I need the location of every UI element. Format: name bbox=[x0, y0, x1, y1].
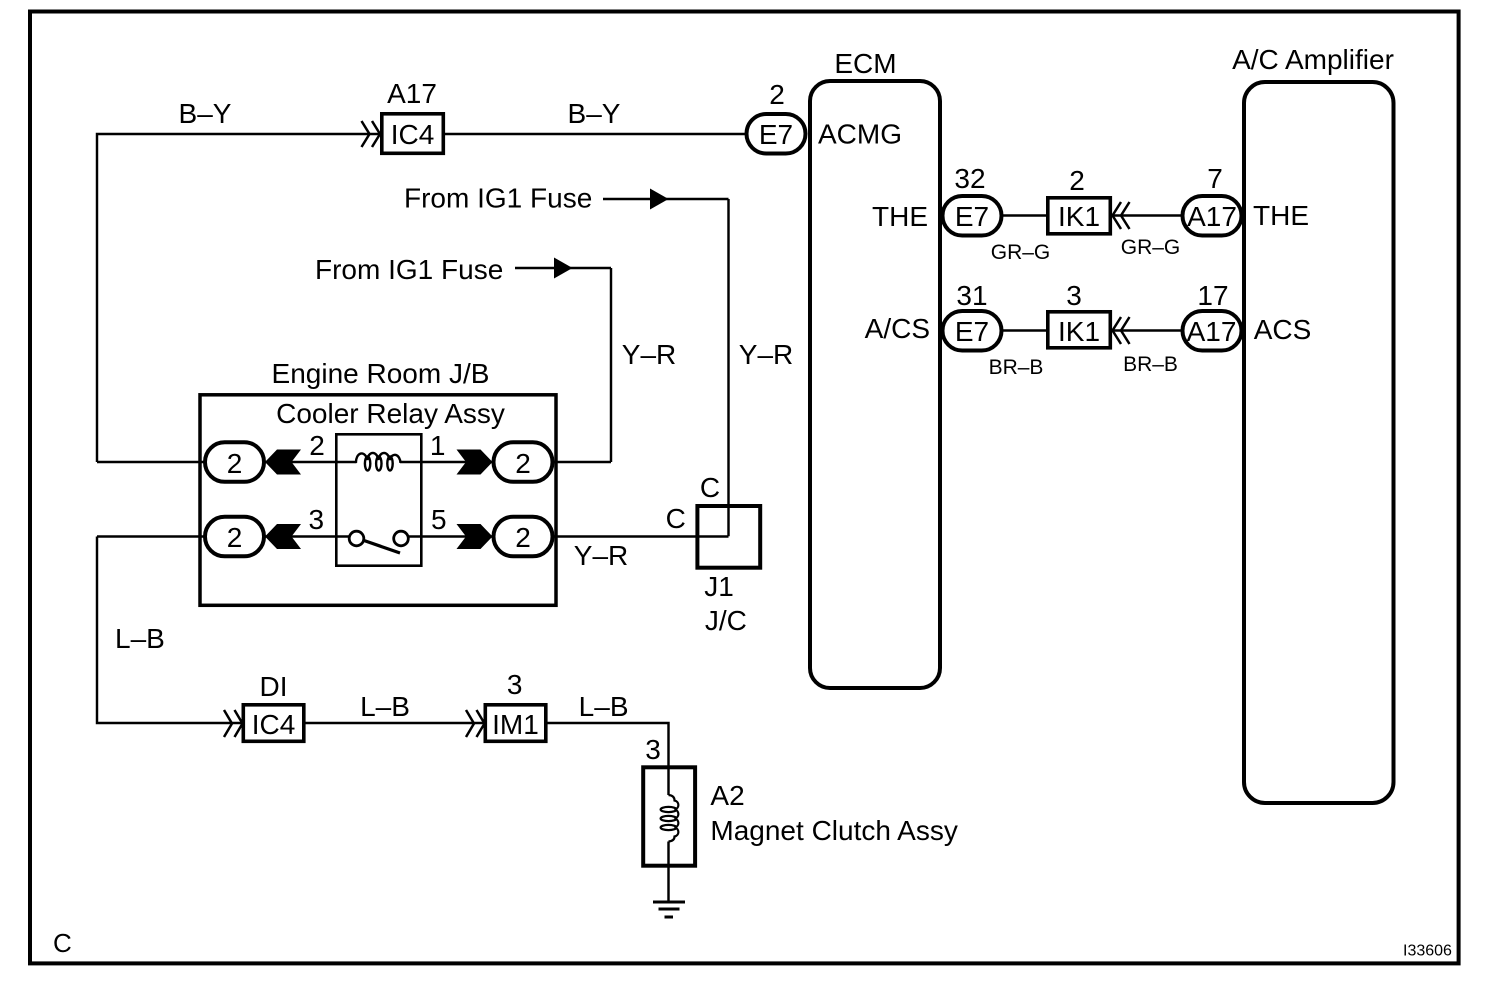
wire L-B middle bbox=[305, 722, 486, 724]
svg-text:IK1: IK1 bbox=[1058, 316, 1100, 347]
svg-text:C: C bbox=[700, 472, 720, 503]
svg-text:GR–G: GR–G bbox=[1121, 236, 1181, 259]
svg-text:Magnet Clutch Assy: Magnet Clutch Assy bbox=[710, 815, 957, 846]
svg-text:B–Y: B–Y bbox=[179, 98, 232, 129]
svg-text:J1: J1 bbox=[704, 571, 734, 602]
net From IG1 Fuse (lower) bbox=[315, 254, 611, 285]
svg-text:2: 2 bbox=[769, 79, 785, 110]
relay box bbox=[336, 434, 421, 565]
svg-text:L–B: L–B bbox=[115, 623, 165, 654]
svg-text:ECM: ECM bbox=[834, 48, 896, 79]
svg-text:L–B: L–B bbox=[579, 691, 629, 722]
svg-text:A/C Amplifier: A/C Amplifier bbox=[1232, 44, 1394, 75]
connector oval 2 (row1 left) bbox=[205, 442, 264, 482]
svg-text:C: C bbox=[53, 928, 72, 958]
wire inside J/B row1 bbox=[263, 461, 357, 463]
wire L-B vertical bbox=[97, 537, 243, 724]
wire B-Y right segment bbox=[445, 133, 746, 135]
svg-text:THE: THE bbox=[1253, 200, 1309, 231]
svg-text:IC4: IC4 bbox=[252, 709, 296, 740]
connector oval E7 pin 31 bbox=[943, 311, 1002, 351]
ground bbox=[653, 902, 685, 917]
wire ACS row (IK1 to A17) bbox=[1110, 329, 1182, 331]
svg-text:1: 1 bbox=[430, 430, 446, 461]
svg-text:2: 2 bbox=[227, 522, 243, 553]
chevron junction after IK1 row2 bbox=[1113, 317, 1130, 344]
svg-text:I33606: I33606 bbox=[1403, 943, 1452, 960]
svg-text:From IG1 Fuse: From IG1 Fuse bbox=[404, 183, 592, 214]
svg-text:A17: A17 bbox=[1187, 316, 1237, 347]
svg-text:2: 2 bbox=[227, 448, 243, 479]
svg-text:E7: E7 bbox=[955, 316, 989, 347]
svg-text:7: 7 bbox=[1207, 163, 1223, 194]
A/C Amplifier box bbox=[1244, 82, 1394, 803]
wire L-B right bbox=[548, 723, 669, 767]
chevron junction into IC4 (DI) bbox=[224, 710, 243, 737]
svg-text:J/C: J/C bbox=[705, 605, 747, 636]
wire B-Y left segment bbox=[97, 134, 380, 462]
arrow into relay pin 2 (left, row1) bbox=[265, 450, 301, 475]
svg-text:A2: A2 bbox=[710, 780, 744, 811]
svg-text:IC4: IC4 bbox=[391, 119, 435, 150]
svg-text:A17: A17 bbox=[1187, 201, 1237, 232]
connector oval E7 pin 32 bbox=[943, 196, 1002, 236]
arrow out of relay pin 1 (right, row1) bbox=[457, 450, 493, 475]
wire THE row (IK1 to A17) bbox=[1110, 214, 1182, 216]
svg-text:Engine Room J/B: Engine Room J/B bbox=[272, 358, 490, 389]
svg-text:2: 2 bbox=[1069, 165, 1085, 196]
svg-text:ACS: ACS bbox=[1254, 314, 1312, 345]
svg-text:17: 17 bbox=[1197, 280, 1228, 311]
svg-text:E7: E7 bbox=[955, 201, 989, 232]
wire ACS row (E7 to IK1) bbox=[1001, 329, 1049, 331]
wire row1 left (to relay pin 2) bbox=[97, 461, 206, 463]
svg-text:5: 5 bbox=[431, 504, 447, 535]
wire to ground bbox=[667, 842, 669, 902]
svg-text:3: 3 bbox=[1066, 280, 1082, 311]
connector oval A17 pin 7 bbox=[1183, 196, 1242, 236]
svg-text:A17: A17 bbox=[387, 78, 437, 109]
connector oval E7 pin 2 bbox=[747, 114, 806, 154]
svg-text:BR–B: BR–B bbox=[989, 356, 1044, 379]
svg-text:Y–R: Y–R bbox=[739, 339, 793, 370]
chevron junction into IC4 bbox=[362, 121, 381, 147]
svg-text:BR–B: BR–B bbox=[1123, 353, 1178, 376]
svg-text:2: 2 bbox=[309, 430, 325, 461]
wire Y-R vertical to J/C bbox=[727, 199, 729, 536]
svg-text:31: 31 bbox=[956, 280, 987, 311]
svg-text:DI: DI bbox=[260, 671, 288, 702]
relay switch bbox=[349, 531, 408, 553]
connector oval A17 pin 17 bbox=[1183, 311, 1242, 351]
chevron junction into IM1 bbox=[466, 710, 485, 737]
svg-text:3: 3 bbox=[309, 504, 325, 535]
relay coil bbox=[356, 453, 401, 471]
wire row2 left bbox=[97, 535, 206, 537]
junction connector J1 J/C box bbox=[697, 506, 760, 636]
svg-text:E7: E7 bbox=[759, 119, 793, 150]
chevron junction after IK1 row1 bbox=[1113, 202, 1130, 229]
magnet clutch A2 box bbox=[643, 767, 695, 865]
net From IG1 Fuse (upper) bbox=[404, 183, 729, 214]
wire row2 to J/C bbox=[551, 535, 729, 537]
svg-text:2: 2 bbox=[515, 448, 531, 479]
wire Y-R vertical to relay pin 1 bbox=[610, 268, 612, 462]
arrow into relay pin 3 (left, row2) bbox=[265, 524, 301, 549]
svg-text:Cooler Relay Assy: Cooler Relay Assy bbox=[276, 398, 505, 429]
svg-text:IK1: IK1 bbox=[1058, 201, 1100, 232]
svg-text:Y–R: Y–R bbox=[622, 339, 676, 370]
svg-text:THE: THE bbox=[872, 201, 928, 232]
svg-text:ACMG: ACMG bbox=[818, 119, 902, 150]
connector oval 2 (row2 left) bbox=[205, 517, 264, 557]
ECM box bbox=[810, 81, 940, 688]
svg-text:GR–G: GR–G bbox=[991, 241, 1051, 264]
svg-text:From IG1 Fuse: From IG1 Fuse bbox=[315, 254, 503, 285]
svg-text:3: 3 bbox=[645, 734, 661, 765]
connector IC4 (DI) bbox=[243, 705, 303, 742]
svg-text:L–B: L–B bbox=[360, 691, 410, 722]
connector IC4 (A17) bbox=[382, 114, 444, 154]
svg-text:C: C bbox=[666, 503, 686, 534]
svg-text:2: 2 bbox=[515, 522, 531, 553]
svg-text:Y–R: Y–R bbox=[574, 540, 628, 571]
svg-text:3: 3 bbox=[507, 669, 523, 700]
svg-text:B–Y: B–Y bbox=[568, 98, 621, 129]
Engine Room J/B box bbox=[200, 395, 556, 606]
connector IM1 bbox=[485, 705, 546, 742]
wire inside J/B row2 right bbox=[408, 535, 495, 537]
svg-text:A/CS: A/CS bbox=[865, 313, 930, 344]
clutch coil bbox=[661, 767, 679, 842]
connector oval 2 (row2 right) bbox=[494, 517, 553, 557]
connector IK1 (row1) bbox=[1048, 198, 1111, 234]
svg-text:IM1: IM1 bbox=[492, 709, 539, 740]
arrow out of relay pin 5 (right, row2) bbox=[457, 524, 493, 549]
wire row1 right to riser bbox=[551, 461, 611, 463]
svg-text:32: 32 bbox=[954, 163, 985, 194]
connector IK1 (row2) bbox=[1048, 312, 1111, 348]
connector oval 2 (row1 right) bbox=[494, 442, 553, 482]
wire inside J/B row2 left bbox=[263, 535, 350, 537]
wire THE row (E7 to IK1) bbox=[1001, 214, 1049, 216]
